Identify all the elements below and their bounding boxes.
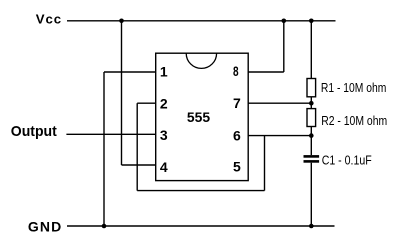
junction dot GND/pin1 drop xyxy=(102,224,107,229)
svg-text:8: 8 xyxy=(233,63,239,79)
svg-text:555: 555 xyxy=(187,110,211,125)
capacitor C1 top plate xyxy=(304,155,320,158)
svg-text:5: 5 xyxy=(233,159,241,175)
wire pin2 drop xyxy=(136,103,138,190)
capacitor C1 bottom plate xyxy=(304,160,320,163)
svg-text:R1 - 10M ohm: R1 - 10M ohm xyxy=(321,81,387,95)
svg-text:1: 1 xyxy=(160,63,168,79)
wire C1 to GND xyxy=(310,163,312,226)
wire Vcc rail xyxy=(67,20,336,22)
wire R1 to R2 xyxy=(310,97,312,109)
op-amp U1 555 IC body xyxy=(156,53,249,180)
resistor R2 xyxy=(307,109,316,127)
wire pin2 stub xyxy=(137,102,156,104)
wire pin1 to GND drop xyxy=(103,72,105,226)
wire pin8 stub xyxy=(248,71,284,73)
wire output to pin 3 xyxy=(66,133,155,135)
svg-text:3: 3 xyxy=(160,127,168,143)
junction dot R2/C1/pin6 xyxy=(309,133,314,138)
wire pin1 stub xyxy=(104,71,156,73)
wire R2 to C1 xyxy=(310,127,312,156)
wire pin6 to R2/C1 node xyxy=(248,135,311,137)
svg-text:R2 - 10M ohm: R2 - 10M ohm xyxy=(321,114,387,128)
svg-text:7: 7 xyxy=(233,95,241,111)
wire pin7 to R1/R2 node xyxy=(248,102,311,104)
wire pin8 to Vcc riser xyxy=(283,21,285,72)
wire Vcc to pin4 drop xyxy=(121,21,123,165)
junction dot GND/C1 lead xyxy=(309,224,314,229)
svg-text:4: 4 xyxy=(160,159,168,175)
junction dot Vcc/pin8 riser xyxy=(282,19,287,24)
junction dot Vcc/pin4 drop xyxy=(119,19,124,24)
wire GND rail xyxy=(67,225,335,227)
wire Vcc to R1 xyxy=(310,21,312,79)
svg-text:C1 - 0.1uF: C1 - 0.1uF xyxy=(322,154,372,168)
resistor R1 xyxy=(307,79,316,97)
svg-text:GND: GND xyxy=(28,218,62,234)
junction dot Vcc/R1 rail xyxy=(309,19,314,24)
wire pin6 link riser xyxy=(264,136,266,191)
svg-text:2: 2 xyxy=(160,95,168,111)
svg-text:Vcc: Vcc xyxy=(36,11,62,26)
notch xyxy=(186,53,216,68)
wire pin2-pin6 bottom link xyxy=(137,190,264,192)
svg-text:Output: Output xyxy=(11,123,57,140)
junction dot R1/R2/pin7 xyxy=(309,101,314,106)
svg-text:6: 6 xyxy=(233,128,241,144)
wire pin4 stub xyxy=(122,164,156,166)
